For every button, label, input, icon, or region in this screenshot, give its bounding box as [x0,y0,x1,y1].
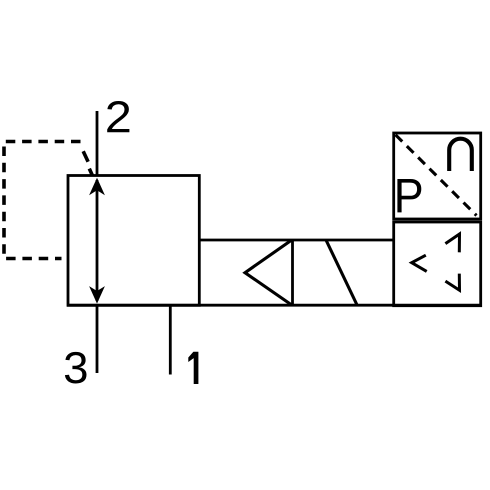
chevron west [412,255,427,271]
flow arrow head down [89,286,105,304]
valve section frame (middle boxes) [67,240,481,305]
port 1 pipe [169,305,172,375]
flow arrow head up [89,178,105,196]
pilot line diagonal dash A [83,151,88,162]
throttle diagonal [326,240,357,305]
flow arrow shaft [96,180,99,301]
pilot line diagonal dash B [89,169,92,176]
letter P [397,179,421,212]
chevron northeast [445,234,459,252]
exhaust box [394,222,481,306]
pilot signal dashed box [4,142,81,259]
port 3 label [65,352,87,384]
port 3 pipe [96,305,99,373]
check valve triangle [245,241,291,305]
port 1 label [188,352,198,384]
inverted-U symbol [449,139,472,171]
port 2 label [107,101,129,132]
port 2 pipe [96,111,99,176]
dashed diagonal in pressure box [396,135,477,216]
chevron southeast [445,274,459,291]
valve body box (regulator position) [68,176,199,306]
pressure indicator box [394,133,481,219]
